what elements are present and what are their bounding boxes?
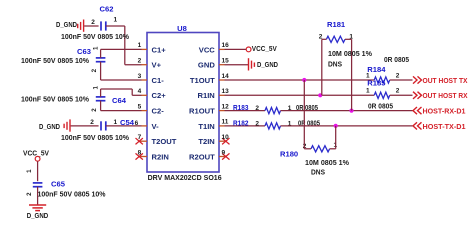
pin number 1 of R180	[333, 142, 337, 149]
svg-text:1: 1	[138, 42, 142, 49]
svg-text:C62: C62	[100, 4, 114, 13]
svg-text:C2-: C2-	[152, 107, 165, 116]
capacitor C64	[96, 96, 127, 105]
svg-text:C63: C63	[77, 47, 91, 56]
svg-text:T2OUT: T2OUT	[152, 137, 177, 146]
pin number 3	[138, 73, 142, 80]
ground D_GND at pin 15	[225, 58, 279, 70]
svg-text:11: 11	[222, 119, 229, 126]
pin number 1	[138, 42, 142, 49]
pin 15 stub	[219, 64, 225, 66]
svg-text:1: 1	[26, 169, 33, 173]
pin 7 stub	[136, 138, 148, 144]
pin number 6	[135, 120, 139, 127]
ground D_GND below C65	[27, 205, 49, 220]
svg-text:4: 4	[138, 88, 142, 95]
port OUT HOST TX	[413, 76, 468, 85]
svg-text:2: 2	[26, 192, 33, 196]
wire R183 to port HOST-RX-D1	[281, 110, 413, 112]
pin number 7	[138, 134, 142, 141]
pin 6 stub	[142, 125, 148, 127]
value label R184 0R 0805	[384, 55, 410, 64]
svg-text:V+: V+	[152, 61, 162, 70]
svg-text:D_GND: D_GND	[56, 20, 77, 29]
pin 11 stub	[219, 125, 225, 127]
pin number 12	[222, 103, 230, 110]
pin number 2 of C65 (rotated)	[26, 192, 33, 196]
pin number 15	[222, 58, 230, 65]
wire R1IN pin 13 to R185	[225, 94, 375, 96]
pin number 2 of C62	[91, 19, 95, 26]
value label C54 100nF	[61, 133, 129, 142]
resistor R182	[233, 118, 281, 129]
pin number 5	[138, 103, 142, 110]
svg-text:1: 1	[113, 119, 117, 126]
svg-text:2: 2	[255, 105, 259, 112]
svg-text:2: 2	[91, 19, 95, 26]
pin number 2	[138, 58, 142, 65]
svg-text:16: 16	[222, 42, 230, 49]
svg-text:OUT HOST TX: OUT HOST TX	[423, 76, 468, 85]
svg-text:0R 0805: 0R 0805	[368, 102, 394, 111]
svg-text:1: 1	[366, 88, 370, 95]
wire C62 to V+ pin 2	[106, 26, 142, 65]
svg-text:10M 0805 1%: 10M 0805 1%	[305, 158, 349, 167]
svg-text:VCC: VCC	[199, 45, 216, 54]
svg-text:100nF 50V 0805 10%: 100nF 50V 0805 10%	[21, 95, 89, 104]
pin number 1 of C62	[113, 16, 117, 23]
wire R181 pin1 down to HOST-RX-D1 net	[345, 39, 352, 110]
svg-text:C1+: C1+	[152, 45, 167, 54]
wire C54 to V- pin 6	[106, 125, 142, 127]
wire D_GND to C62 pin2	[84, 25, 98, 27]
pin 4 stub	[142, 94, 148, 96]
pin number 1 of R185	[366, 88, 370, 95]
wire R181 pin2 down to OUT HOST RX net	[322, 39, 327, 95]
pin number 2 of C64 (rotated)	[91, 108, 98, 112]
resistor R184	[367, 65, 389, 83]
svg-text:100nF 50V 0805 10%: 100nF 50V 0805 10%	[61, 32, 129, 41]
svg-text:T1OUT: T1OUT	[190, 76, 215, 85]
svg-text:2: 2	[396, 72, 400, 79]
svg-text:9: 9	[222, 149, 226, 156]
pin number 16	[222, 42, 230, 49]
svg-text:2: 2	[255, 120, 259, 127]
pin number 9	[222, 149, 226, 156]
svg-text:V-: V-	[152, 122, 160, 131]
pin number 2 of C63 (rotated)	[91, 68, 98, 72]
junction node on HOST-TX-D1 net	[334, 124, 338, 128]
svg-text:OUT HOST RX: OUT HOST RX	[423, 91, 468, 100]
svg-text:C1-: C1-	[152, 76, 165, 85]
pin number 2 of R181	[319, 34, 323, 41]
svg-text:15: 15	[222, 58, 230, 65]
svg-text:1: 1	[113, 16, 117, 23]
wire C63 bottom to C1- pin 3	[101, 62, 142, 80]
resistor R180	[280, 146, 330, 159]
svg-text:2: 2	[90, 119, 94, 126]
svg-text:R183: R183	[233, 103, 249, 112]
pin number 10	[222, 134, 230, 141]
pin number 14	[222, 73, 230, 80]
port HOST-TX-D1	[413, 122, 466, 131]
svg-text:R1IN: R1IN	[197, 91, 214, 100]
svg-text:100nF 50V 0805 10%: 100nF 50V 0805 10%	[21, 56, 89, 65]
svg-text:R2IN: R2IN	[152, 152, 169, 161]
value label R181 10M 0805 1%	[328, 49, 372, 58]
wire C64 top to C2+ pin 4	[101, 89, 142, 97]
svg-text:1: 1	[93, 86, 100, 90]
svg-text:C64: C64	[112, 96, 127, 105]
pin number 1 of R181	[349, 34, 353, 41]
pin 14 stub	[219, 79, 225, 81]
wire R1OUT pin 12 to R183	[225, 110, 266, 112]
svg-text:VCC_5V: VCC_5V	[252, 44, 278, 53]
svg-text:13: 13	[222, 88, 230, 95]
wire C65 to ground	[37, 187, 39, 205]
pin number 8	[138, 149, 142, 156]
svg-text:T2IN: T2IN	[198, 137, 214, 146]
svg-text:5: 5	[138, 103, 142, 110]
svg-text:100nF 50V 0805 10%: 100nF 50V 0805 10%	[38, 189, 106, 198]
svg-text:14: 14	[222, 73, 230, 80]
svg-text:0R 0805: 0R 0805	[384, 55, 410, 64]
svg-text:R181: R181	[327, 20, 346, 29]
wire R185 to port	[390, 94, 413, 96]
svg-text:DNS: DNS	[328, 59, 342, 68]
value label R183 0R 0805	[296, 103, 319, 112]
junction node on OUT HOST TX net	[302, 78, 306, 82]
DNS label R181	[328, 59, 342, 68]
pin number 1 of C63 (rotated)	[93, 46, 100, 50]
pin number 2 of R185	[396, 88, 400, 95]
value label C63 100nF	[21, 56, 89, 65]
svg-text:7: 7	[138, 134, 142, 141]
capacitor C63	[77, 47, 105, 62]
wire D_GND to C54 pin2	[71, 125, 99, 127]
svg-text:R2OUT: R2OUT	[189, 152, 215, 161]
svg-text:D_GND: D_GND	[257, 60, 278, 69]
svg-text:2: 2	[91, 108, 98, 112]
svg-text:10: 10	[222, 134, 230, 141]
pin 5 stub	[142, 110, 148, 112]
pin number 11	[222, 119, 229, 126]
value label R185 0R 0805	[368, 102, 394, 111]
pin number 1 of R184	[366, 72, 370, 79]
svg-text:100nF 50V 0805 10%: 100nF 50V 0805 10%	[61, 133, 129, 142]
svg-text:U8: U8	[177, 24, 187, 33]
value label C65 100nF	[38, 189, 106, 198]
value label R180 10M 0805 1%	[305, 158, 349, 167]
ground D_GND at C62	[56, 20, 84, 32]
svg-text:2: 2	[396, 88, 400, 95]
pin number 2 of R183	[255, 105, 259, 112]
power VCC_5V at pin 16	[225, 44, 278, 53]
pin number 2 of R182	[255, 120, 259, 127]
wire VCC_5V to C65	[37, 161, 39, 181]
capacitor C62	[100, 4, 114, 30]
pin 16 stub	[219, 48, 225, 50]
svg-text:HOST-TX-D1: HOST-TX-D1	[423, 122, 467, 131]
junction node on HOST-RX-D1 net	[349, 109, 353, 113]
junction node on OUT HOST RX net	[318, 93, 322, 97]
svg-text:R185: R185	[367, 78, 386, 87]
svg-text:R180: R180	[280, 149, 298, 158]
svg-text:8: 8	[138, 149, 142, 156]
svg-text:DNS: DNS	[311, 168, 325, 177]
pin number 1 of R182	[288, 120, 292, 127]
resistor R181	[326, 20, 346, 42]
pin number 2 of R184	[396, 72, 400, 79]
pin number 4	[138, 88, 142, 95]
pin 12 stub	[219, 110, 225, 112]
value label R182 0R 0805	[298, 118, 321, 127]
wire R182 to port HOST-TX-D1	[281, 125, 413, 127]
ground D_GND at C54	[39, 119, 70, 131]
pin 1 stub	[142, 48, 148, 50]
port HOST-RX-D1	[413, 107, 466, 116]
wire C63 top to C1+ pin 1	[101, 49, 142, 58]
pin number 1 of C65 (rotated)	[26, 169, 33, 173]
value label C62 100nF	[61, 32, 129, 41]
svg-text:C2+: C2+	[152, 91, 167, 100]
pin number 2 of C54	[90, 119, 94, 126]
svg-text:HOST-RX-D1: HOST-RX-D1	[423, 107, 467, 116]
DNS label R180	[311, 168, 325, 177]
pin 2 stub	[142, 64, 148, 66]
pin number 1 of C64 (rotated)	[93, 86, 100, 90]
svg-text:D_GND: D_GND	[27, 211, 49, 220]
pin 10 stub	[219, 138, 230, 144]
op-amp U8 (driver DRV MAX202CD SO16 body)	[147, 24, 222, 182]
svg-text:3: 3	[138, 73, 142, 80]
pin number 2 of R180	[303, 143, 307, 150]
capacitor C54	[101, 118, 135, 131]
wire T1OUT pin 14 to R184	[225, 79, 375, 81]
wire R184 to port	[390, 79, 413, 81]
svg-text:R1OUT: R1OUT	[189, 107, 215, 116]
capacitor C65	[33, 179, 66, 188]
svg-text:10M 0805 1%: 10M 0805 1%	[328, 49, 372, 58]
wire T1IN pin 11 to R182	[225, 125, 266, 127]
svg-text:DRV MAX202CD SO16: DRV MAX202CD SO16	[148, 173, 222, 182]
pin 13 stub	[219, 94, 225, 96]
pin 3 stub	[142, 79, 148, 81]
resistor R185	[367, 78, 389, 98]
wire R180 pin1 up to HOST-TX-D1 net	[330, 126, 336, 149]
port OUT HOST RX	[413, 91, 468, 100]
svg-text:1: 1	[93, 46, 100, 50]
wire C64 bottom to C2- pin 5	[101, 101, 142, 111]
svg-text:T1IN: T1IN	[198, 122, 214, 131]
pin 9 stub	[219, 153, 230, 159]
wire R180 pin2 up to OUT HOST TX net	[304, 80, 311, 149]
svg-text:C65: C65	[51, 179, 66, 188]
pin 8 stub	[136, 153, 148, 159]
pin number 1 of C54	[113, 119, 117, 126]
svg-text:2: 2	[138, 58, 142, 65]
svg-text:D_GND: D_GND	[39, 122, 60, 131]
svg-text:GND: GND	[198, 61, 215, 70]
power VCC_5V (left)	[23, 148, 50, 161]
svg-text:R184: R184	[367, 65, 386, 74]
value label C64 100nF	[21, 95, 89, 104]
pin number 13	[222, 88, 230, 95]
svg-text:12: 12	[222, 103, 230, 110]
resistor R183	[233, 103, 281, 114]
pin number 1 of R183	[288, 105, 292, 112]
svg-text:2: 2	[91, 68, 98, 72]
svg-text:R182: R182	[233, 118, 249, 127]
